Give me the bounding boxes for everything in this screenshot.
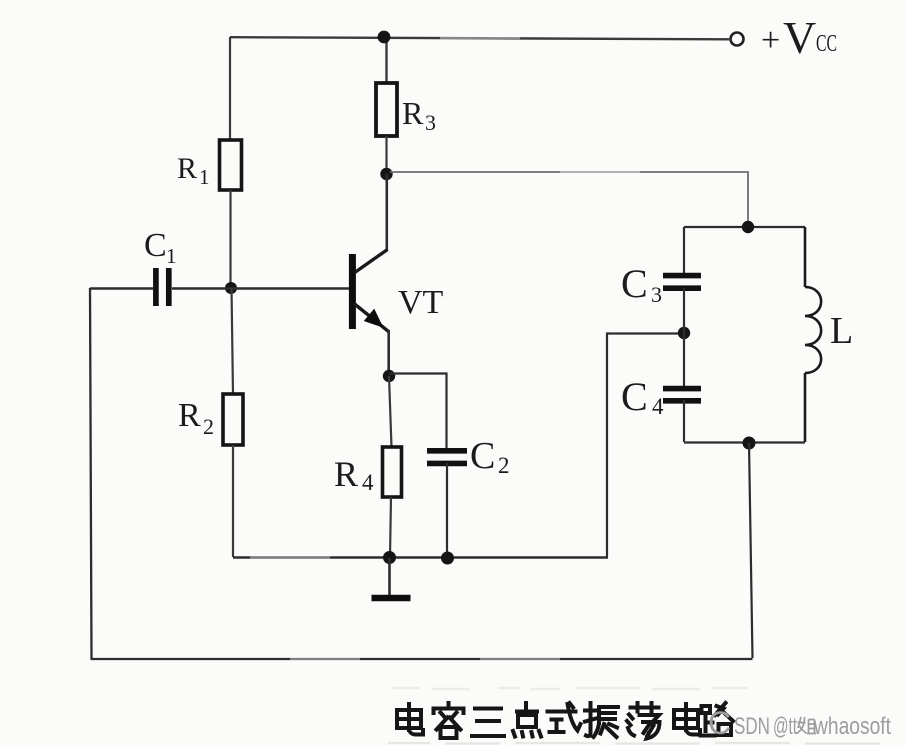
capacitor C2: [427, 451, 467, 464]
svg-text:L: L: [830, 310, 853, 352]
svg-text:+: +: [761, 22, 780, 59]
wire emitter vertical: [387, 330, 390, 376]
node emitter junction: [383, 370, 395, 382]
svg-text:R: R: [334, 454, 358, 494]
svg-text:3: 3: [425, 110, 436, 135]
wire emitter node down to R4: [389, 376, 392, 447]
wire top rail: [230, 37, 729, 39]
wire C3 bottom to midpoint: [683, 288, 685, 333]
svg-text:R: R: [402, 95, 424, 131]
svg-text:C: C: [470, 435, 495, 477]
node top rail junction: [378, 31, 391, 44]
svg-text:@tt: @tt: [773, 713, 797, 740]
svg-text:CC: CC: [816, 31, 837, 57]
wire emitter node to C2 top: [389, 374, 447, 449]
node ground row left: [383, 551, 396, 564]
wire ground row: [233, 556, 608, 558]
wire left vertical: [90, 288, 92, 659]
wire base row (C1 to transistor base): [172, 287, 349, 289]
inductor L: [805, 227, 821, 442]
wire base node down to R2: [232, 288, 234, 394]
node R3 bottom junction: [380, 168, 392, 180]
svg-text:4: 4: [652, 394, 664, 419]
caption 电容三点式振荡电路: [397, 703, 733, 739]
wire left stub to C1: [90, 287, 153, 289]
svg-text:V: V: [783, 12, 816, 63]
wire R2 bottom to ground row: [232, 445, 234, 557]
terminal +Vcc: [731, 33, 744, 46]
label +Vcc: [761, 12, 837, 63]
node C3 C4 midpoint: [678, 327, 690, 339]
wire collector vertical: [385, 174, 388, 250]
wire ground row up to tank midpoint: [607, 334, 684, 558]
svg-text:R: R: [178, 397, 201, 434]
wire R4 bottom to ground row: [390, 497, 391, 557]
transistor VT: [352, 250, 388, 332]
watermark CSDN @tt姐whaosoft: [708, 705, 891, 741]
wire tank bottom down: [749, 443, 753, 658]
wire tank top rail: [684, 226, 805, 228]
node tank bottom: [743, 437, 756, 450]
svg-text:1: 1: [199, 165, 210, 189]
svg-text:SDN: SDN: [734, 713, 770, 740]
faded patches on wires: [250, 38, 640, 659]
svg-text:R: R: [177, 152, 197, 185]
scan smudge row bottom edge: [388, 742, 880, 745]
wire collector feed to tank: [390, 172, 748, 227]
capacitor C1: [156, 268, 169, 306]
svg-text:C: C: [144, 227, 167, 264]
svg-text:VT: VT: [398, 284, 444, 321]
resistor R1: [220, 140, 242, 190]
node base junction: [225, 282, 237, 294]
wire left drop from rail to R1: [229, 37, 231, 140]
wire R3 bottom to collector node: [385, 136, 387, 174]
svg-text:1: 1: [166, 244, 177, 268]
wire midpoint to C4: [683, 333, 685, 386]
capacitor C3: [663, 276, 701, 289]
svg-text:C: C: [708, 705, 731, 741]
svg-text:2: 2: [498, 453, 510, 478]
watermark CJK 姐: [797, 717, 817, 734]
wire C4 bottom to tank bottom rail: [683, 400, 685, 442]
resistor R2: [223, 394, 243, 445]
svg-text:whaosoft: whaosoft: [813, 713, 891, 740]
svg-text:C: C: [621, 374, 648, 419]
scan smudge row above caption: [392, 688, 748, 689]
wire C2 bottom to ground row: [446, 463, 448, 557]
node tank top: [742, 221, 754, 233]
svg-text:2: 2: [203, 414, 214, 439]
ground: [372, 558, 411, 598]
node ground row right: [441, 552, 454, 565]
svg-text:C: C: [621, 261, 648, 306]
svg-text:4: 4: [362, 470, 374, 495]
wire bottom long row: [91, 658, 753, 660]
capacitor C4: [663, 389, 701, 401]
resistor R4: [383, 447, 402, 497]
wire R1 bottom to base node: [229, 190, 231, 288]
wire C3 column top: [683, 227, 685, 273]
svg-text:3: 3: [651, 282, 662, 307]
wire tank bottom rail: [684, 441, 805, 443]
resistor R3: [385, 38, 387, 83]
